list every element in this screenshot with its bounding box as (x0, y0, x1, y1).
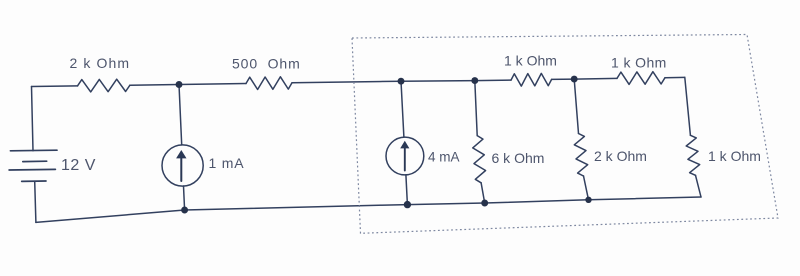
bottom rail junction dot under I1 (181, 207, 188, 214)
svg-text:1 k Ohm: 1 k Ohm (504, 53, 557, 69)
svg-text:500 Ohm: 500 Ohm (232, 56, 301, 72)
wire top-left from corner to R1 (32, 85, 78, 88)
node A junction dot (176, 81, 183, 88)
dashed boundary box (sub-network outline) (352, 35, 778, 234)
current source I1 1 mA (circle) (162, 145, 203, 186)
battery V1 12 V plates (9, 150, 57, 181)
svg-text:2 k Ohm: 2 k Ohm (70, 55, 131, 71)
resistor R1 2 k Ohm (top left, horizontal) (78, 79, 130, 92)
resistor R5 1 k Ohm (right, vertical) (686, 135, 700, 175)
svg-text:1 mA: 1 mA (209, 155, 245, 171)
wire R2 to node B and node C (292, 80, 511, 83)
wire I1 bottom to bottom rail (184, 186, 185, 210)
svg-text:1 k Ohm: 1 k Ohm (708, 148, 761, 164)
resistor R2 500 Ohm (horizontal) (246, 77, 292, 90)
wire R3 to node D and on to R4 (552, 78, 617, 79)
wire R7 bottom to bottom rail (584, 176, 589, 200)
wire node C down to R6 (475, 81, 477, 136)
current source I1 arrow (176, 150, 186, 181)
bottom rail junction dot under I2 (404, 201, 411, 208)
svg-text:6 k Ohm: 6 k Ohm (492, 150, 545, 166)
bottom wire (ground rail) (36, 197, 701, 222)
node D junction dot (571, 76, 578, 83)
svg-text:1 k Ohm: 1 k Ohm (611, 55, 667, 71)
wire I2 bottom to bottom rail (406, 175, 408, 205)
wire node A down to current source I1 (179, 85, 182, 145)
wire R5 bottom to bottom-right corner (696, 175, 702, 197)
resistor R4 1 k Ohm (top, horizontal, right) (617, 72, 665, 85)
bottom rail junction dot under R6 (481, 200, 488, 207)
svg-text:4 mA: 4 mA (428, 150, 460, 165)
wire R6 bottom to bottom rail (481, 183, 485, 203)
node C junction dot (471, 77, 478, 84)
wire battery top lead (32, 87, 34, 151)
svg-text:2 k Ohm: 2 k Ohm (594, 148, 647, 164)
resistor R7 2 k Ohm (vertical) (574, 134, 587, 177)
wire R4 to top-right corner (665, 76, 685, 78)
current source I2 arrow (400, 141, 409, 171)
resistor R3 1 k Ohm (top, horizontal, left) (511, 73, 552, 86)
wire battery bottom lead (35, 181, 36, 222)
wire node B down to current source I2 (401, 81, 404, 137)
wire R1 to node A and on to R2 (130, 84, 246, 86)
wire node D down to R7 (574, 79, 578, 133)
resistor R6 6 k Ohm (vertical) (473, 136, 486, 183)
bottom rail junction dot under R7 (585, 197, 591, 203)
node B junction dot (398, 78, 405, 85)
svg-text:12 V: 12 V (61, 157, 96, 174)
current source I2 4 mA (circle) (386, 137, 424, 175)
wire right branch down to R5 (685, 77, 691, 135)
